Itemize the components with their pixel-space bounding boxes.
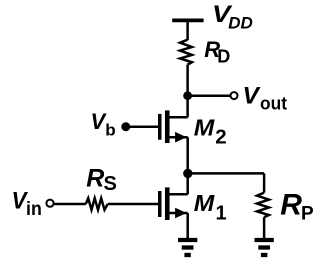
svg-text:in: in — [26, 199, 42, 220]
svg-text:out: out — [260, 94, 287, 114]
svg-text:R: R — [86, 164, 104, 192]
svg-text:DD: DD — [228, 14, 253, 33]
svg-text:2: 2 — [215, 126, 226, 149]
svg-text:S: S — [104, 173, 117, 195]
svg-text:b: b — [105, 120, 115, 139]
svg-text:V: V — [243, 83, 262, 110]
svg-text:M: M — [194, 115, 215, 141]
svg-text:M: M — [194, 190, 215, 216]
svg-text:P: P — [301, 204, 314, 225]
svg-text:R: R — [280, 189, 302, 222]
svg-text:1: 1 — [216, 202, 227, 224]
svg-text:D: D — [217, 47, 230, 67]
